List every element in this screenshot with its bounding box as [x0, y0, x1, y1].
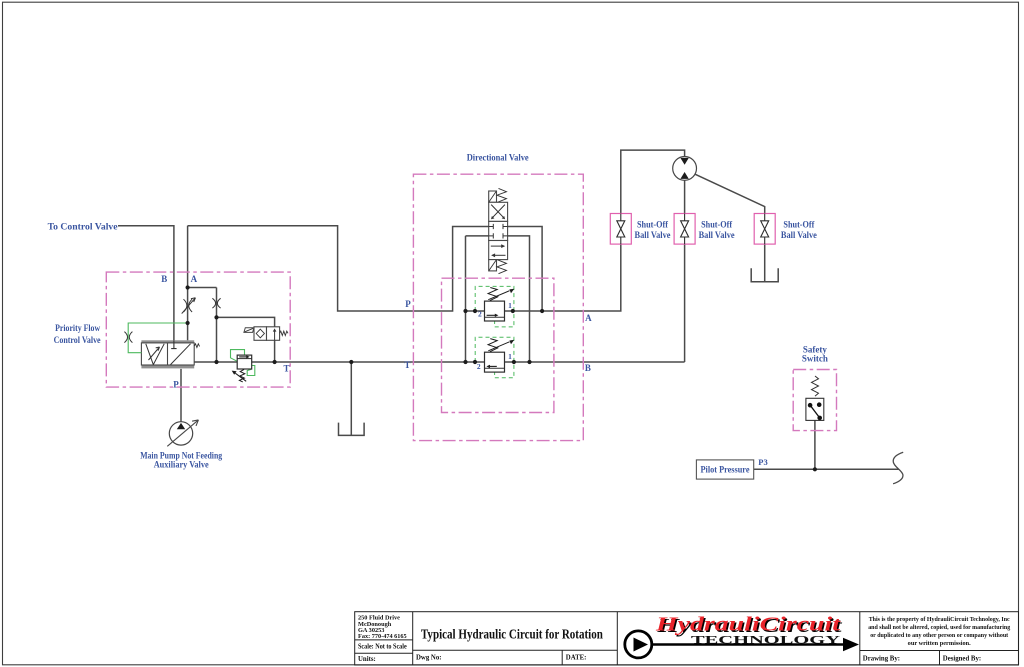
svg-text:P: P: [405, 299, 411, 309]
svg-text:Shut-Off: Shut-Off: [637, 219, 669, 229]
svg-text:Drawing By:: Drawing By:: [863, 655, 900, 662]
svg-text:Switch: Switch: [802, 354, 828, 364]
svg-text:Priority Flow: Priority Flow: [55, 323, 100, 333]
svg-text:A: A: [585, 313, 592, 323]
svg-text:Shut-Off: Shut-Off: [701, 219, 733, 229]
svg-text:1: 1: [508, 301, 512, 310]
svg-text:T: T: [404, 360, 410, 370]
svg-text:Ball Valve: Ball Valve: [635, 230, 671, 240]
svg-text:or duplicated to any other per: or duplicated to any other person or com…: [870, 632, 1009, 639]
svg-text:Designed By:: Designed By:: [943, 655, 981, 662]
svg-text:P3: P3: [758, 457, 767, 467]
svg-text:DATE:: DATE:: [566, 655, 587, 662]
svg-text:T: T: [283, 364, 289, 374]
svg-text:To Control Valve: To Control Valve: [48, 222, 118, 232]
svg-text:A: A: [191, 274, 198, 284]
svg-text:Directional Valve: Directional Valve: [467, 152, 529, 162]
svg-text:Ball Valve: Ball Valve: [699, 230, 735, 240]
svg-text:Units:: Units:: [358, 656, 376, 663]
svg-text:our written permission.: our written permission.: [908, 640, 971, 647]
svg-text:Control Valve: Control Valve: [54, 335, 101, 345]
svg-text:Auxiliary Valve: Auxiliary Valve: [154, 460, 209, 470]
svg-text:P: P: [173, 380, 179, 390]
svg-text:1: 1: [508, 352, 512, 361]
svg-text:and shall not be altered, copi: and shall not be altered, copied, used f…: [868, 624, 1011, 631]
svg-text:B: B: [161, 274, 167, 284]
svg-text:HydrauliCircuit: HydrauliCircuit: [655, 614, 842, 636]
svg-text:2: 2: [478, 310, 482, 319]
svg-text:Ball Valve: Ball Valve: [781, 230, 817, 240]
svg-text:Fax: 770-474 6165: Fax: 770-474 6165: [358, 633, 407, 640]
svg-text:Dwg No:: Dwg No:: [416, 655, 442, 662]
svg-text:Typical Hydraulic Circuit for: Typical Hydraulic Circuit for Rotation: [421, 628, 603, 643]
svg-text:This is the property of Hydrau: This is the property of HydrauliCircuit …: [869, 616, 1010, 623]
svg-text:B: B: [585, 363, 591, 373]
svg-text:TECHNOLOGY: TECHNOLOGY: [691, 635, 841, 647]
svg-text:Pilot Pressure: Pilot Pressure: [701, 465, 750, 475]
svg-text:Scale: Not to Scale: Scale: Not to Scale: [358, 644, 407, 651]
svg-text:Shut-Off: Shut-Off: [783, 219, 815, 229]
svg-text:2: 2: [477, 362, 481, 371]
